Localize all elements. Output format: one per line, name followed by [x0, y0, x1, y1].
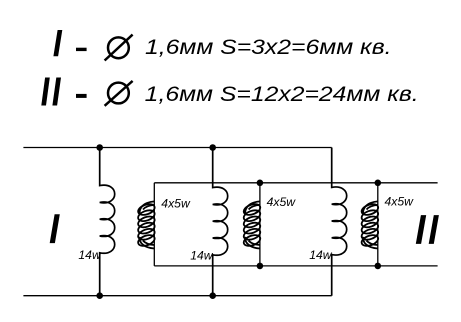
junction node: W2 top [257, 180, 264, 187]
winding W2 4x5w (middle secondary coil) [242, 201, 261, 248]
junction node: L2 bottom [209, 292, 216, 299]
junction node: L2 top [209, 144, 216, 151]
diameter symbol line 1 [105, 35, 133, 61]
svg-text:4x5w: 4x5w [385, 194, 415, 208]
svg-text:14w: 14w [190, 248, 214, 262]
junction node: W3 top [375, 180, 382, 187]
wire: bottom rail of winding I [23, 295, 331, 297]
wire: vertical link at node B2/C2 [259, 183, 261, 266]
svg-text:4x5w: 4x5w [161, 196, 191, 210]
label II (winding II terminal) [416, 215, 426, 244]
diameter symbol line 2 [105, 81, 133, 106]
label I (winding I terminal) [50, 214, 60, 243]
wire: vertical link at node B3/C3 [377, 183, 379, 266]
label I (legend line 1) [53, 30, 62, 56]
inductor L1 14w (leftmost primary coil) [100, 148, 115, 296]
wire: vertical link left end of winding II rails [153, 183, 155, 266]
winding W3 4x5w (right secondary coil) [360, 201, 379, 248]
wire: top rail of winding II [154, 182, 437, 184]
wire: bottom rail of winding II [154, 265, 437, 267]
junction node: W3 bottom [375, 263, 382, 270]
dash (legend line 2) [76, 94, 87, 98]
svg-text:1,6мм S=3x2=6мм кв.: 1,6мм S=3x2=6мм кв. [145, 36, 392, 59]
inductor L3 14w (rightmost primary coil) [332, 148, 347, 296]
svg-text:14w: 14w [78, 248, 102, 262]
winding W1 4x5w (left secondary coil) [137, 201, 156, 248]
label II (legend line 2) [41, 78, 50, 106]
junction node: L1 top [96, 144, 103, 151]
svg-text:4x5w: 4x5w [267, 195, 297, 209]
junction node: L1 bottom [96, 292, 103, 299]
dash (legend line 1) [76, 48, 87, 51]
junction node: W2 bottom [257, 263, 264, 270]
svg-text:14w: 14w [309, 248, 333, 262]
wire: top rail of winding I [23, 147, 331, 149]
inductor L2 14w (middle primary coil) [213, 148, 228, 296]
svg-text:1,6мм S=12x2=24мм кв.: 1,6мм S=12x2=24мм кв. [145, 83, 419, 106]
